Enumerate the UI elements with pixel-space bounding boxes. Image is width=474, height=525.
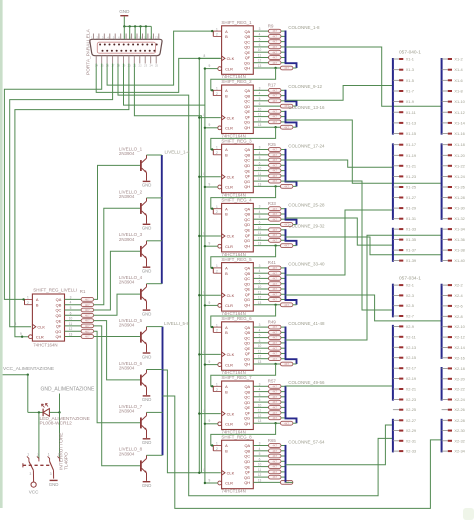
- wire CLR trunk to SHIFT_REG_6 pin 9: [205, 364, 218, 366]
- svg-text:5: 5: [259, 452, 261, 456]
- svg-text:11: 11: [258, 231, 262, 235]
- svg-text:12: 12: [258, 236, 262, 240]
- svg-text:X1-38: X1-38: [454, 248, 464, 253]
- svg-text:QH: QH: [244, 184, 250, 189]
- svg-text:2: 2: [27, 301, 29, 305]
- svg-text:X1-4: X1-4: [454, 67, 463, 72]
- svg-text:4K7: 4K7: [272, 346, 277, 350]
- svg-text:CLK: CLK: [37, 324, 45, 329]
- svg-text:QC: QC: [244, 454, 250, 459]
- svg-text:QH: QH: [244, 362, 250, 367]
- svg-text:X1-12: X1-12: [454, 110, 464, 115]
- ground GND (LIVELLO_7 emitter): [143, 438, 151, 440]
- wire COLONNE_25-28 to X1 left column: [286, 218, 393, 245]
- svg-text:2N3904: 2N3904: [119, 194, 135, 199]
- svg-text:12: 12: [258, 473, 262, 477]
- svg-text:SHIFT_REG_2: SHIFT_REG_2: [221, 79, 252, 84]
- svg-text:21: 21: [133, 64, 137, 68]
- wire CLK trunk to SHIFT_REG_1 pin 8: [199, 57, 221, 59]
- svg-text:4K7: 4K7: [272, 411, 277, 415]
- svg-text:13: 13: [258, 478, 262, 482]
- svg-text:4K7: 4K7: [272, 298, 277, 302]
- svg-text:X1-27: X1-27: [406, 195, 416, 200]
- svg-text:13: 13: [258, 64, 262, 68]
- svg-text:X2-8: X2-8: [454, 314, 462, 319]
- svg-text:QG: QG: [244, 238, 250, 243]
- svg-text:11: 11: [258, 290, 262, 294]
- svg-text:QH: QH: [244, 66, 250, 71]
- wire cascade QH of SHIFT_REG_1 to SHIFT_REG_2: [274, 67, 276, 69]
- svg-text:A: A: [225, 206, 228, 211]
- wire QD of SHIFT_REG_LIVELLI to base of LIVELLO_4: [94, 294, 140, 315]
- wire collector LIVELLO_7 to bus: [147, 411, 163, 413]
- svg-text:COLONNE_25-28: COLONNE_25-28: [288, 203, 325, 208]
- svg-text:QD: QD: [55, 313, 61, 318]
- svg-text:X2-31: X2-31: [406, 438, 416, 443]
- svg-text:QE: QE: [244, 50, 250, 55]
- svg-text:9: 9: [209, 64, 211, 68]
- svg-text:X1-14: X1-14: [454, 120, 465, 125]
- wire CLK trunk to SHIFT_REG_6 pin 8: [199, 353, 221, 355]
- svg-text:CLK: CLK: [227, 293, 235, 298]
- svg-text:VCC: VCC: [29, 489, 39, 494]
- svg-text:QD: QD: [244, 222, 250, 227]
- wire port pin6 to X2 (long bottom route): [118, 64, 393, 496]
- svg-text:X1-31: X1-31: [406, 216, 416, 221]
- svg-text:4K7: 4K7: [272, 50, 277, 54]
- svg-text:5: 5: [259, 38, 261, 42]
- svg-text:4: 4: [259, 210, 261, 214]
- svg-text:QD: QD: [244, 341, 250, 346]
- svg-text:4K7: 4K7: [85, 303, 90, 307]
- svg-text:2: 2: [216, 447, 218, 451]
- wire COLONNE_41-48 tap to X1 right column: [286, 235, 442, 340]
- svg-text:X2-10: X2-10: [454, 324, 465, 329]
- svg-text:4K7: 4K7: [272, 292, 277, 296]
- svg-text:X1-20: X1-20: [454, 153, 465, 158]
- svg-text:X1-15: X1-15: [406, 131, 416, 136]
- svg-text:4K7: 4K7: [272, 271, 277, 275]
- svg-text:5: 5: [259, 215, 261, 219]
- svg-text:X2-5: X2-5: [406, 303, 414, 308]
- svg-text:12: 12: [258, 414, 262, 418]
- svg-text:R1: R1: [80, 289, 86, 294]
- svg-text:8: 8: [204, 468, 206, 472]
- svg-text:B: B: [225, 34, 228, 39]
- svg-text:5: 5: [259, 156, 261, 160]
- svg-text:X1-25: X1-25: [406, 185, 416, 190]
- svg-text:6: 6: [259, 398, 261, 402]
- svg-text:17: 17: [111, 64, 115, 68]
- svg-text:1: 1: [27, 296, 29, 300]
- svg-text:11: 11: [258, 468, 262, 472]
- svg-text:X1-6: X1-6: [454, 78, 462, 83]
- svg-text:PL008-WCR12: PL008-WCR12: [40, 421, 73, 427]
- svg-text:QH: QH: [244, 421, 250, 426]
- bus COLONNE_9-12: [286, 90, 297, 106]
- svg-text:R25: R25: [268, 142, 277, 147]
- svg-text:B: B: [225, 153, 228, 158]
- svg-text:4: 4: [259, 388, 261, 392]
- svg-text:X1-9: X1-9: [406, 99, 414, 104]
- svg-text:SHIFT_REG_LIVELLI: SHIFT_REG_LIVELLI: [33, 287, 77, 292]
- svg-text:X1-36: X1-36: [454, 237, 464, 242]
- svg-text:QE: QE: [244, 346, 250, 351]
- svg-text:B: B: [225, 212, 228, 217]
- svg-text:4K7: 4K7: [272, 148, 277, 152]
- svg-text:11: 11: [69, 322, 73, 326]
- svg-text:GND: GND: [142, 440, 152, 445]
- svg-text:20: 20: [128, 64, 132, 68]
- wire VCC_ALIMENTAZIONE: [3, 374, 28, 376]
- svg-text:X2-11: X2-11: [406, 334, 416, 339]
- svg-text:4K7: 4K7: [272, 282, 277, 286]
- svg-text:QG: QG: [244, 120, 250, 125]
- svg-text:X2-3: X2-3: [406, 293, 414, 298]
- svg-text:6: 6: [259, 339, 261, 343]
- svg-text:X1-33: X1-33: [406, 227, 416, 232]
- svg-text:4K7: 4K7: [284, 66, 289, 70]
- svg-text:23: 23: [144, 64, 148, 68]
- svg-text:1: 1: [48, 452, 50, 456]
- svg-text:QH: QH: [244, 303, 250, 308]
- ground GND (LIVELLO_8 emitter): [143, 481, 151, 483]
- svg-text:2: 2: [216, 329, 218, 333]
- svg-text:6: 6: [259, 457, 261, 461]
- wire cascade QH of SHIFT_REG_7 to SHIFT_REG_8: [274, 422, 276, 424]
- svg-text:4K7: 4K7: [272, 336, 277, 340]
- svg-text:6: 6: [259, 280, 261, 284]
- svg-text:GND: GND: [49, 482, 59, 487]
- svg-text:COLONNE_33-40: COLONNE_33-40: [288, 262, 325, 267]
- svg-text:9: 9: [209, 478, 211, 482]
- svg-text:A: A: [225, 384, 228, 389]
- svg-text:4K7: 4K7: [272, 325, 277, 329]
- svg-text:X1-28: X1-28: [454, 195, 464, 200]
- svg-text:X2-30: X2-30: [454, 428, 465, 433]
- svg-text:X1-17: X1-17: [406, 142, 416, 147]
- svg-text:4K7: 4K7: [272, 88, 277, 92]
- bus COLONNE_13-16: [286, 111, 297, 127]
- svg-text:QG: QG: [244, 475, 250, 480]
- svg-text:4K7: 4K7: [272, 56, 277, 60]
- svg-text:QC: QC: [244, 276, 250, 281]
- svg-text:QA: QA: [244, 266, 250, 271]
- svg-text:4K7: 4K7: [85, 308, 90, 312]
- svg-text:12: 12: [258, 118, 262, 122]
- svg-text:A: A: [225, 443, 228, 448]
- wire CLR trunk to SHIFT_REG_2 pin 9: [205, 127, 218, 129]
- ground GND (parallel port): [123, 17, 125, 27]
- wire GND bus to port pins: [124, 25, 151, 27]
- svg-text:11: 11: [258, 409, 262, 413]
- svg-text:QA: QA: [244, 206, 250, 211]
- svg-text:13: 13: [258, 182, 262, 186]
- svg-text:QG: QG: [244, 356, 250, 361]
- svg-text:B: B: [225, 271, 228, 276]
- svg-text:CLR: CLR: [225, 362, 233, 367]
- svg-text:QH: QH: [244, 243, 250, 248]
- svg-text:QE: QE: [244, 168, 250, 173]
- node A/B input of SHIFT_REG_6: [212, 327, 214, 332]
- wire CLR trunk to SHIFT_REG_3 pin 9: [205, 186, 218, 188]
- svg-text:X2-19: X2-19: [406, 376, 416, 381]
- svg-text:R9: R9: [268, 23, 274, 28]
- svg-text:10: 10: [258, 463, 262, 467]
- svg-text:4K7: 4K7: [272, 35, 277, 39]
- svg-text:QE: QE: [56, 318, 62, 323]
- wire collector LIVELLO_4 to bus: [147, 283, 162, 285]
- svg-text:X1-32: X1-32: [454, 216, 464, 221]
- svg-text:8: 8: [204, 409, 206, 413]
- svg-text:COLONNE_57-64: COLONNE_57-64: [288, 439, 325, 444]
- svg-text:3: 3: [259, 205, 261, 209]
- svg-text:X2-18: X2-18: [454, 366, 464, 371]
- bus LIVELLI_5-8: [162, 327, 164, 456]
- svg-text:X2-7: X2-7: [406, 314, 414, 319]
- svg-text:CLR: CLR: [225, 126, 233, 131]
- svg-text:10: 10: [258, 344, 262, 348]
- svg-text:R33: R33: [268, 201, 277, 206]
- svg-text:3: 3: [259, 86, 261, 90]
- svg-text:9: 9: [209, 242, 211, 246]
- shift register SHIFT_REG_6 (74HCT164N): [222, 322, 254, 371]
- svg-text:LIVELLI_1-4: LIVELLI_1-4: [165, 150, 191, 155]
- svg-text:QE: QE: [244, 287, 250, 292]
- svg-text:4: 4: [259, 151, 261, 155]
- bus COLONNE_29-32: [286, 229, 297, 245]
- wire collector LIVELLO_3 to bus: [147, 240, 162, 242]
- wire COLONNE_33-40 to X2 right column: [286, 295, 442, 321]
- svg-text:COLONNE_49-56: COLONNE_49-56: [288, 380, 325, 385]
- wire port pin7 to CLR trunk: [124, 64, 205, 106]
- svg-text:B: B: [225, 93, 228, 98]
- connector X2 left column pins X2-1..X2-33: [392, 284, 394, 318]
- svg-text:X1-8: X1-8: [454, 89, 462, 94]
- wire COLONNE_1-8 to X1 right column: [286, 47, 442, 106]
- svg-text:13: 13: [258, 123, 262, 127]
- svg-text:GND: GND: [142, 269, 152, 274]
- svg-text:CLR: CLR: [225, 66, 233, 71]
- svg-text:22: 22: [139, 64, 143, 68]
- svg-text:X2-1: X2-1: [406, 283, 414, 288]
- svg-text:10: 10: [258, 285, 262, 289]
- svg-text:QF: QF: [245, 114, 251, 119]
- svg-text:QD: QD: [244, 45, 250, 50]
- svg-text:6: 6: [259, 102, 261, 106]
- svg-text:4K7: 4K7: [272, 390, 277, 394]
- svg-text:CLR: CLR: [225, 185, 233, 190]
- svg-text:6: 6: [259, 43, 261, 47]
- svg-text:CLK: CLK: [227, 471, 235, 476]
- svg-text:4K7: 4K7: [272, 61, 277, 65]
- svg-text:SHIFT_REG_8: SHIFT_REG_8: [221, 434, 252, 439]
- svg-text:X2-23: X2-23: [406, 397, 416, 402]
- wire cascade QH of SHIFT_REG_4 to SHIFT_REG_5: [274, 244, 276, 246]
- wire cascade QH of SHIFT_REG_3 to SHIFT_REG_4: [274, 185, 276, 187]
- svg-text:X2-27: X2-27: [406, 418, 416, 423]
- svg-text:10: 10: [258, 226, 262, 230]
- svg-text:QC: QC: [55, 308, 61, 313]
- svg-text:X2-12: X2-12: [454, 335, 464, 340]
- svg-text:QD: QD: [244, 459, 250, 464]
- svg-text:1: 1: [216, 264, 218, 268]
- svg-text:4K7: 4K7: [85, 319, 90, 323]
- connector X1 left column pins X1-1..X1-39: [392, 58, 394, 135]
- svg-text:QG: QG: [244, 297, 250, 302]
- svg-text:X2-9: X2-9: [406, 324, 414, 329]
- svg-text:GND: GND: [119, 9, 130, 14]
- svg-text:X1-40: X1-40: [454, 258, 465, 263]
- svg-text:4K7: 4K7: [272, 277, 277, 281]
- wire CLR trunk to SHIFT_REG_5 pin 9: [205, 304, 218, 306]
- svg-text:X1-29: X1-29: [406, 206, 416, 211]
- svg-text:A: A: [225, 88, 228, 93]
- svg-text:4K7: 4K7: [85, 313, 90, 317]
- svg-text:19: 19: [122, 64, 126, 68]
- svg-text:4: 4: [259, 92, 261, 96]
- svg-text:12: 12: [258, 177, 262, 181]
- wire LIVELLI bus tap via bottom corridor: [163, 370, 200, 473]
- svg-text:R17: R17: [268, 83, 277, 88]
- wire CLK trunk to SHIFT_REG_8 pin 8: [199, 472, 221, 474]
- svg-text:TL46PO: TL46PO: [64, 452, 70, 470]
- svg-text:X1-2: X1-2: [454, 57, 462, 62]
- svg-text:QE: QE: [244, 228, 250, 233]
- svg-text:X1-11: X1-11: [406, 110, 416, 115]
- wire collector LIVELLO_2 to bus: [147, 197, 162, 199]
- svg-text:4K7: 4K7: [272, 120, 277, 124]
- svg-text:4K7: 4K7: [272, 94, 277, 98]
- svg-text:18: 18: [117, 64, 121, 68]
- node A/B input of SHIFT_REG_8: [212, 446, 214, 451]
- svg-text:4K7: 4K7: [272, 207, 277, 211]
- ground GND (LIVELLO_6 emitter): [143, 395, 151, 397]
- svg-text:4K7: 4K7: [85, 329, 90, 333]
- svg-text:SHIFT_REG_6: SHIFT_REG_6: [221, 316, 252, 321]
- svg-text:13: 13: [69, 333, 73, 337]
- svg-text:3: 3: [259, 264, 261, 268]
- svg-text:B: B: [225, 449, 228, 454]
- node A/B input of SHIFT_REG_LIVELLI: [24, 299, 26, 304]
- svg-text:4K7: 4K7: [272, 395, 277, 399]
- svg-text:9: 9: [209, 360, 211, 364]
- svg-text:QC: QC: [244, 217, 250, 222]
- svg-text:X2-17: X2-17: [406, 366, 416, 371]
- corner mark: [463, 508, 474, 520]
- svg-text:1: 1: [216, 87, 218, 91]
- node A/B input of SHIFT_REG_1: [212, 31, 214, 36]
- svg-text:CLK: CLK: [227, 352, 235, 357]
- svg-text:3: 3: [259, 146, 261, 150]
- svg-text:B: B: [36, 302, 39, 307]
- wire COLONNE_33-40 second tap to X1 left column: [286, 210, 393, 275]
- wire LED to switch pole 1: [38, 412, 40, 458]
- wire cascade QH of SHIFT_REG_5 to SHIFT_REG_6: [274, 304, 276, 306]
- svg-text:2N3904: 2N3904: [119, 323, 135, 328]
- svg-text:CLR: CLR: [225, 481, 233, 486]
- ground GND (LIVELLO_4 emitter): [143, 309, 151, 311]
- svg-text:8: 8: [204, 172, 206, 176]
- shift register SHIFT_REG_LIVELLI (74HCT164N): [32, 294, 64, 341]
- wire collector LIVELLO_6 to bus: [147, 369, 163, 371]
- shift register SHIFT_REG_2 (74HCT164N): [222, 85, 254, 134]
- svg-text:4K7: 4K7: [272, 29, 277, 33]
- svg-text:4K7: 4K7: [272, 110, 277, 114]
- wire port pin9 secondary clock line: [134, 64, 201, 473]
- wire CLR trunk to SHIFT_REG_1 pin 9: [205, 68, 218, 70]
- svg-text:13: 13: [155, 35, 159, 39]
- svg-text:74HCT164N: 74HCT164N: [33, 343, 57, 348]
- svg-text:4K7: 4K7: [272, 45, 277, 49]
- svg-text:5: 5: [259, 393, 261, 397]
- svg-text:2N3904: 2N3904: [119, 366, 135, 371]
- svg-text:B: B: [225, 389, 228, 394]
- svg-text:QA: QA: [244, 325, 250, 330]
- wire CLR trunk to SHIFT_REG_8 pin 9: [205, 482, 218, 484]
- svg-text:5: 5: [259, 97, 261, 101]
- svg-text:A: A: [225, 147, 228, 152]
- svg-text:X1-18: X1-18: [454, 142, 464, 147]
- svg-text:057-040-1: 057-040-1: [399, 50, 421, 56]
- svg-text:057-034-1: 057-034-1: [399, 276, 421, 282]
- svg-text:X1-10: X1-10: [454, 99, 465, 104]
- svg-text:GND: GND: [142, 397, 152, 402]
- svg-text:CLK: CLK: [227, 175, 235, 180]
- svg-text:SHIFT_REG_3: SHIFT_REG_3: [221, 138, 252, 143]
- svg-text:9: 9: [209, 301, 211, 305]
- svg-text:R57: R57: [268, 379, 277, 384]
- wire COLONNE_57-64 to X2 left column: [286, 425, 393, 465]
- svg-text:X2-21: X2-21: [406, 387, 416, 392]
- connector X2 right column pins X2-2..X2-34: [441, 284, 443, 359]
- svg-text:4K7: 4K7: [272, 454, 277, 458]
- wire port pin8 to left trunk C (to SHIFT_REG_LIVELLI CLR): [15, 64, 129, 337]
- node A/B input of SHIFT_REG_4: [212, 209, 214, 214]
- svg-text:2: 2: [216, 210, 218, 214]
- svg-text:SHIFT_REG_7: SHIFT_REG_7: [221, 375, 252, 380]
- svg-text:4K7: 4K7: [272, 384, 277, 388]
- svg-text:2: 2: [216, 151, 218, 155]
- wire QH of SHIFT_REG_LIVELLI to base of LIVELLO_5: [94, 336, 140, 338]
- svg-text:12: 12: [258, 296, 262, 300]
- wire CLR input of SHIFT_REG_LIVELLI: [21, 336, 23, 338]
- svg-text:X1-26: X1-26: [454, 185, 464, 190]
- svg-text:CLK: CLK: [227, 411, 235, 416]
- svg-text:12: 12: [69, 327, 73, 331]
- svg-text:X2-32: X2-32: [454, 438, 464, 443]
- svg-text:X1-13: X1-13: [406, 120, 416, 125]
- wire COLONNE_17-24 second tap to X2 left column: [286, 181, 393, 310]
- svg-text:4K7: 4K7: [272, 99, 277, 103]
- shift register SHIFT_REG_4 (74HCT164N): [222, 203, 254, 252]
- svg-text:X1-23: X1-23: [406, 174, 416, 179]
- svg-text:4K7: 4K7: [272, 331, 277, 335]
- svg-text:4K7: 4K7: [272, 169, 277, 173]
- svg-text:QB: QB: [56, 302, 62, 307]
- svg-text:4K7: 4K7: [272, 228, 277, 232]
- wire LED to switch pole 2: [59, 412, 61, 458]
- svg-text:12: 12: [258, 355, 262, 359]
- svg-text:QC: QC: [244, 99, 250, 104]
- svg-text:4K7: 4K7: [284, 185, 289, 189]
- svg-text:QG: QG: [244, 60, 250, 65]
- wire CLK trunk to SHIFT_REG_2 pin 8: [199, 117, 221, 119]
- ground GND (LIVELLO_2 emitter): [143, 223, 151, 225]
- svg-text:QA: QA: [244, 443, 250, 448]
- svg-text:1: 1: [216, 205, 218, 209]
- wire QA of SHIFT_REG_LIVELLI to base of LIVELLO_1: [94, 165, 140, 299]
